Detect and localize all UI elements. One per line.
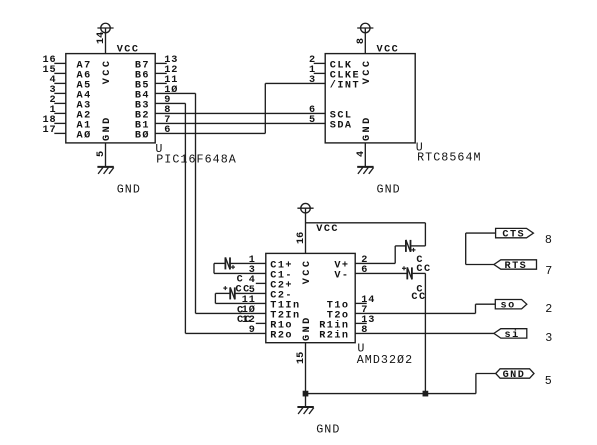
svg-text:CC: CC [237, 315, 252, 326]
svg-text:GND: GND [377, 182, 401, 196]
svg-text:RTC8564M: RTC8564M [417, 151, 482, 165]
svg-text:16: 16 [296, 232, 307, 244]
wire to RTS flag [466, 264, 494, 266]
svg-text:15: 15 [296, 352, 307, 364]
junction at V- cap riser and ground rail [423, 391, 428, 396]
wire riser C1+ to C1- [213, 263, 215, 273]
capacitor C value CC [236, 284, 251, 295]
DB9 pin number 5 [545, 374, 553, 388]
wire U1-B3 to U3-R2o (horizontal at B3 row) [155, 102, 185, 104]
wire into V+ capacitor [395, 245, 406, 247]
U3 pin number 16 (rotated) [296, 232, 307, 244]
svg-text:9: 9 [249, 325, 256, 336]
wire riser to T1In row [214, 293, 216, 303]
wire V- capacitor to riser [412, 272, 426, 274]
svg-text:5: 5 [545, 374, 553, 388]
svg-text:BØ: BØ [135, 130, 150, 142]
U2 refdes U [416, 141, 424, 155]
svg-text:GND: GND [316, 422, 340, 436]
U1 pin 13 (B7) stub [135, 55, 178, 72]
svg-text:2: 2 [545, 302, 553, 316]
svg-text:GND: GND [362, 115, 373, 141]
U1 pin 12 (B6) stub [135, 65, 178, 82]
net label VCC at U3 [316, 224, 339, 235]
wire U3 V- to capacitor [355, 272, 407, 274]
wire U3 pin 15 to ground rail [305, 343, 307, 407]
U2 pin 6 (SCL) stub [309, 105, 353, 122]
svg-text:AØ: AØ [77, 130, 92, 142]
svg-text:/INT: /INT [330, 80, 360, 92]
junction at U3 ground rail [303, 391, 308, 396]
svg-text:VCC: VCC [362, 59, 373, 85]
DB9 pin number 2 [545, 302, 553, 316]
wire VCC rail to U3 pin16 net [306, 222, 426, 224]
VCC power symbol above U2 [357, 23, 373, 33]
capacitor C (V+ to VCC) [406, 240, 416, 252]
ground symbol below U2 [357, 167, 373, 174]
wire U1-B3 to U3-R2o (vertical) [184, 103, 186, 333]
U3 pin number 15 (rotated) [296, 352, 307, 364]
wire U1-B1 to U2-SDA [155, 122, 325, 124]
svg-text:AMD32Ø2: AMD32Ø2 [357, 353, 413, 367]
svg-text:GND: GND [102, 115, 113, 141]
U2 pin number 4 (rotated) [356, 151, 367, 157]
svg-text:8: 8 [361, 325, 368, 336]
U3 pin name GND (rotated) [302, 315, 313, 341]
capacitor C refdes (second) [237, 305, 245, 316]
U1 pin name VCC (rotated) [102, 59, 113, 85]
U2 pin name VCC (rotated) [362, 59, 373, 85]
wire si flag to U3 R2in [355, 332, 494, 334]
wire V- riser down to ground rail [424, 273, 426, 393]
U1 pin 11 (B5) stub [135, 75, 178, 92]
svg-text:RTS: RTS [505, 261, 528, 272]
IC U1 PIC16F648A body [66, 54, 155, 143]
U2 pin number 8 (rotated) [356, 38, 367, 44]
text GND below U1 ground [117, 182, 141, 196]
net flag RTS [494, 260, 537, 272]
U3 pin 9 (R2o) [249, 325, 293, 342]
wire U3 V+ right segment [355, 262, 395, 264]
IC U3 AMD3202 body [266, 253, 355, 342]
U2 part name RTC8564M [417, 151, 482, 165]
VCC power symbol above U1 [97, 23, 113, 33]
svg-text:5: 5 [96, 151, 107, 157]
svg-text:8: 8 [545, 233, 553, 247]
U3 pin 7 (T2o) [327, 305, 369, 322]
svg-text:VCC: VCC [316, 224, 339, 235]
wire U1-B2 to U2-SCL [155, 112, 325, 114]
U1 pin 17 (A0) stub [42, 125, 91, 142]
svg-text:R2in: R2in [319, 330, 349, 342]
U3 pin 3 (C1-) [249, 265, 293, 282]
wire U1-B0 to U2-/INT (horizontal at B0 row) [155, 132, 265, 134]
wire to U3 T1In [215, 302, 265, 304]
U3 pin 6 (V-) [334, 265, 368, 282]
net flag so [495, 300, 527, 312]
IC U2 RTC8564M body [325, 54, 415, 143]
net flag si [494, 329, 527, 341]
U3 pin name VCC (rotated) [302, 259, 313, 285]
svg-text:V-: V- [334, 271, 349, 282]
wire VCC symbol to U2 pin 8 [364, 28, 366, 54]
svg-text:CC: CC [411, 292, 426, 303]
U1 pin 8 (B2) stub [135, 105, 171, 122]
capacitor C refdes [237, 274, 245, 285]
GND flag riser [475, 374, 477, 394]
svg-text:R2o: R2o [270, 331, 293, 342]
U3 pin 12 (R1o) [242, 315, 293, 332]
svg-text:6: 6 [361, 265, 368, 276]
U3 pin 4 (C2+) [249, 275, 293, 292]
DB9 pin number 8 [545, 233, 553, 247]
svg-text:si: si [505, 329, 520, 341]
wire U3 T2o to so flag (row segment) [355, 312, 475, 314]
svg-text:6: 6 [164, 125, 171, 136]
svg-text:GND: GND [302, 315, 313, 341]
U1 pin 2 (A3) stub [49, 95, 91, 112]
wire U3 C1+ to capacitor [230, 262, 266, 264]
capacitor C (C1+/C1-) [225, 257, 235, 269]
U1 pin 15 (A6) stub [42, 65, 91, 82]
CTS-RTS loopback riser [465, 233, 467, 264]
text GND below U2 ground [377, 182, 401, 196]
U1 pin 16 (A7) stub [42, 55, 91, 72]
wire U1-B4 to U3-T2In (horizontal at B4 row) [155, 92, 195, 94]
U3 pin 14 (T1o) [327, 295, 376, 312]
U2 pin 3 (/INT) stub [309, 75, 360, 92]
svg-text:7: 7 [545, 264, 553, 278]
so flag riser [475, 304, 477, 313]
svg-text:VCC: VCC [102, 59, 113, 85]
DB9 pin number 3 [545, 331, 553, 345]
wire CTS flag to left [466, 232, 496, 234]
U1 pin 4 (A5) stub [49, 75, 91, 92]
capacitor C (V- to GND) [402, 266, 412, 279]
svg-text:so: so [501, 301, 516, 312]
wire U3 R2o row segment [185, 332, 265, 334]
svg-text:14: 14 [96, 32, 107, 44]
net flag GND (bidirectional) [496, 369, 534, 381]
wire U3 T2In row segment [196, 312, 266, 314]
wire VCC symbol to U3 pin 16 [305, 208, 307, 253]
svg-text:3: 3 [545, 331, 553, 345]
svg-text:5: 5 [309, 115, 316, 126]
svg-text:GND: GND [117, 182, 141, 196]
wire capacitor to left riser (C1+ net) [214, 262, 225, 264]
U3 pin 13 (R1in) [319, 315, 375, 332]
wire U1-B0 to U2-/INT (vertical riser) [264, 83, 266, 133]
U3 refdes U [357, 341, 365, 355]
U1 pin 9 (B3) stub [135, 95, 171, 112]
U3 pin 2 (V+) [334, 255, 368, 272]
wire VCC symbol to U1 pin 14 [105, 28, 107, 54]
U1 refdes U [155, 142, 163, 156]
capacitor C refdes (V+) [416, 255, 424, 266]
wire V+ riser up to cap [394, 246, 396, 264]
wire U1 pin 5 to ground [105, 143, 107, 167]
net label VCC at U2 [377, 44, 400, 55]
wire to so flag [476, 303, 496, 305]
U1 pin number 5 (rotated) [96, 151, 107, 157]
wire to U3 C1- [214, 272, 266, 274]
U2 pin 2 (CLK) stub [309, 55, 353, 72]
svg-text:4: 4 [356, 151, 367, 157]
svg-text:VCC: VCC [117, 44, 140, 55]
U1 pin 7 (B1) stub [135, 115, 171, 132]
U1 pin number 14 (rotated) [96, 32, 107, 44]
U3 pin 10 (T2In) [242, 304, 301, 322]
svg-text:GND: GND [503, 370, 526, 381]
svg-text:17: 17 [42, 125, 56, 136]
U3 part name AMD3202 [357, 353, 413, 367]
U3 pin 5 (C2-) [249, 285, 293, 302]
svg-text:VCC: VCC [377, 44, 400, 55]
svg-text:SDA: SDA [330, 121, 353, 132]
DB9 pin number 7 [545, 264, 553, 278]
wire to GND flag [476, 373, 496, 375]
capacitor C (C2-) [223, 286, 235, 299]
wire U2 pin 4 to ground [364, 143, 366, 167]
svg-text:VCC: VCC [302, 259, 313, 285]
capacitor C refdes (V-) [416, 285, 424, 296]
U2 pin 1 (CLKE) stub [309, 65, 360, 82]
U1 pin 1 (A2) stub [49, 105, 91, 122]
U2 pin 5 (SDA) stub [309, 115, 353, 132]
capacitor C value CC (V+) [416, 264, 431, 275]
U1 pin 10 (B4) stub [135, 84, 178, 102]
net label VCC at U1 [117, 44, 140, 55]
wire V+ capacitor to riser [411, 245, 426, 247]
ground rail wire to GND flag riser [306, 393, 476, 395]
capacitor C value CC (second) [237, 315, 252, 326]
wire riser up to VCC rail [424, 223, 426, 246]
ground symbol below U3 [297, 407, 313, 414]
U3 pin 11 (T1In) [242, 295, 301, 312]
U2 pin name GND (rotated) [362, 115, 373, 141]
ground symbol below U1 [97, 167, 113, 174]
svg-text:PIC16F648A: PIC16F648A [156, 152, 237, 166]
U1 part name PIC16F648A [156, 152, 237, 166]
U1 pin 6 (B0) stub [135, 125, 171, 142]
net flag CTS [496, 228, 534, 240]
VCC power symbol above U3 [297, 203, 313, 213]
wire capacitor to left riser (C2- net) [215, 292, 230, 294]
U3 pin 1 (C1+) [249, 255, 293, 272]
svg-text:3: 3 [309, 75, 316, 86]
U1 pin name GND (rotated) [102, 115, 113, 141]
wire U3 C2- to capacitor [235, 292, 266, 294]
capacitor C value CC (V-) [411, 292, 426, 303]
svg-text:8: 8 [356, 38, 367, 44]
U3 pin 8 (R2in) [319, 325, 368, 342]
U1 pin 3 (A4) stub [49, 85, 91, 102]
svg-text:CTS: CTS [502, 230, 525, 241]
wire U2-/INT row segment [265, 82, 325, 84]
text GND below U3 ground [316, 422, 340, 436]
wire U1-B4 to U3-T2In (vertical) [195, 93, 197, 313]
U1 pin 18 (A1) stub [42, 115, 91, 132]
